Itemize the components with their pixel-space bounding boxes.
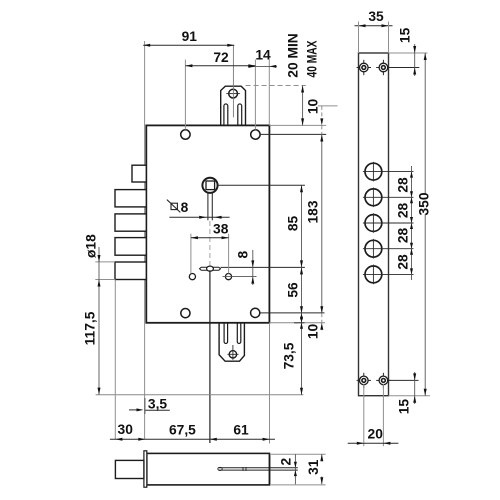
svg-text:15: 15	[396, 399, 411, 415]
svg-text:56: 56	[286, 282, 301, 298]
svg-text:31: 31	[306, 459, 321, 475]
svg-text:183: 183	[305, 200, 320, 223]
svg-text:15: 15	[398, 27, 413, 43]
svg-text:8: 8	[236, 250, 251, 258]
svg-text:350: 350	[416, 192, 431, 215]
svg-text:85: 85	[286, 216, 301, 232]
svg-text:28: 28	[396, 177, 411, 193]
svg-text:117,5: 117,5	[83, 311, 98, 345]
svg-text:3,5: 3,5	[148, 396, 168, 411]
svg-text:ø18: ø18	[83, 234, 98, 258]
svg-text:72: 72	[213, 50, 229, 65]
svg-text:30: 30	[118, 422, 134, 437]
svg-text:67,5: 67,5	[169, 422, 196, 437]
svg-text:28: 28	[396, 254, 411, 270]
svg-text:40 MAX: 40 MAX	[305, 40, 320, 78]
svg-text:8: 8	[181, 200, 189, 215]
svg-text:91: 91	[182, 29, 198, 44]
svg-text:61: 61	[233, 423, 249, 438]
svg-text:35: 35	[368, 9, 384, 24]
svg-text:38: 38	[213, 222, 229, 237]
svg-text:20 MIN: 20 MIN	[286, 33, 301, 78]
svg-text:28: 28	[396, 203, 411, 219]
svg-text:10: 10	[305, 99, 320, 115]
svg-text:10: 10	[305, 324, 320, 340]
svg-text:2: 2	[278, 458, 293, 466]
svg-text:73,5: 73,5	[282, 342, 297, 369]
svg-text:14: 14	[255, 48, 271, 63]
svg-text:28: 28	[396, 228, 411, 244]
svg-text:20: 20	[368, 426, 384, 441]
